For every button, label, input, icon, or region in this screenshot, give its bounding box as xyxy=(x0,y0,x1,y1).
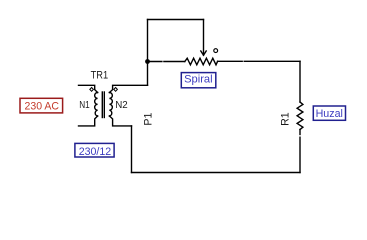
svg-text:R1: R1 xyxy=(280,112,292,126)
svg-text:Spiral: Spiral xyxy=(184,73,213,85)
svg-text:Huzal: Huzal xyxy=(316,108,343,120)
svg-text:230/12: 230/12 xyxy=(79,146,112,158)
svg-text:N1: N1 xyxy=(79,100,90,111)
svg-text:TR1: TR1 xyxy=(91,70,109,82)
svg-text:N2: N2 xyxy=(115,100,128,111)
svg-text:P1: P1 xyxy=(143,113,155,126)
svg-text:230 AC: 230 AC xyxy=(25,101,60,113)
